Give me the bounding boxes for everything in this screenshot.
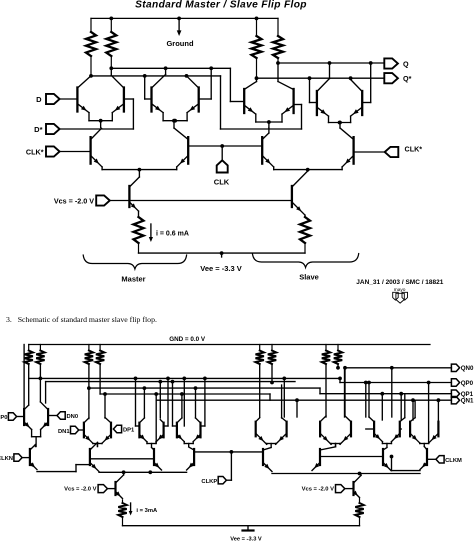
svg-text:Standard Master / Slave Flip F: Standard Master / Slave Flip Flop bbox=[135, 0, 307, 11]
svg-text:P0: P0 bbox=[0, 415, 7, 421]
svg-text:CLKN: CLKN bbox=[0, 456, 13, 462]
svg-text:Vcs = -2.0 V: Vcs = -2.0 V bbox=[54, 196, 94, 205]
svg-text:DP1: DP1 bbox=[123, 428, 135, 434]
svg-text:DN1: DN1 bbox=[58, 429, 70, 435]
svg-text:Vcs = -2.0 V: Vcs = -2.0 V bbox=[302, 487, 335, 493]
svg-text:QP0: QP0 bbox=[461, 380, 474, 387]
svg-text:DN0: DN0 bbox=[67, 414, 79, 420]
svg-text:Q*: Q* bbox=[403, 74, 412, 83]
svg-text:QN0: QN0 bbox=[461, 365, 474, 372]
svg-text:Q: Q bbox=[403, 59, 409, 68]
svg-text:i = 0.6 mA: i = 0.6 mA bbox=[156, 231, 189, 238]
svg-text:CLK: CLK bbox=[214, 178, 230, 187]
svg-text:JAN_31 / 2003 / SMC / 18821: JAN_31 / 2003 / SMC / 18821 bbox=[356, 279, 443, 286]
svg-text:D: D bbox=[36, 95, 42, 104]
svg-text:Vee = -3.3 V: Vee = -3.3 V bbox=[230, 536, 262, 542]
svg-text:CLK*: CLK* bbox=[405, 145, 423, 154]
svg-text:QN1: QN1 bbox=[461, 398, 474, 405]
svg-text:i = 3mA: i = 3mA bbox=[136, 508, 158, 514]
svg-text:Vcs = -2.0 V: Vcs = -2.0 V bbox=[64, 487, 97, 493]
svg-text:CLK*: CLK* bbox=[26, 148, 44, 157]
svg-text:CLKM: CLKM bbox=[445, 458, 462, 464]
svg-text:3. Schematic of standard mas: 3. Schematic of standard master slave fl… bbox=[6, 315, 157, 324]
svg-text:CLKP: CLKP bbox=[201, 479, 217, 485]
svg-text:Ground: Ground bbox=[166, 39, 193, 48]
svg-text:Vee = -3.3 V: Vee = -3.3 V bbox=[200, 264, 242, 273]
svg-text:Slave: Slave bbox=[299, 273, 319, 282]
svg-text:D*: D* bbox=[34, 125, 42, 134]
svg-text:Master: Master bbox=[121, 275, 145, 284]
svg-text:GND = 0.0 V: GND = 0.0 V bbox=[169, 336, 206, 343]
